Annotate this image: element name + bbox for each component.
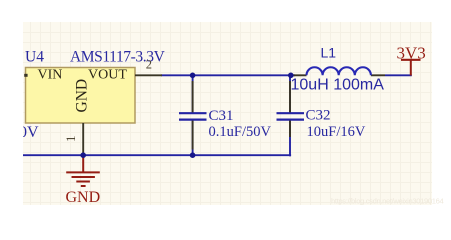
svg-text:10uH 100mA: 10uH 100mA xyxy=(291,77,385,94)
svg-text:0.1uF/50V: 0.1uF/50V xyxy=(209,124,272,140)
svg-text:C31: C31 xyxy=(209,108,234,124)
svg-text:GND: GND xyxy=(74,79,91,113)
svg-text:3V3: 3V3 xyxy=(397,43,426,62)
svg-text:10uF/16V: 10uF/16V xyxy=(307,124,366,140)
svg-text:VIN: VIN xyxy=(38,68,63,83)
svg-text:1: 1 xyxy=(63,136,78,143)
svg-text:https://blog.csdn.net/weixin30: https://blog.csdn.net/weixin30190164 xyxy=(331,197,443,206)
svg-text:L1: L1 xyxy=(321,44,337,60)
svg-text:U4: U4 xyxy=(25,49,44,66)
svg-text:2: 2 xyxy=(146,58,152,72)
svg-text:C32: C32 xyxy=(306,108,331,124)
svg-text:GND: GND xyxy=(66,189,101,206)
svg-text:VOUT: VOUT xyxy=(88,68,127,83)
